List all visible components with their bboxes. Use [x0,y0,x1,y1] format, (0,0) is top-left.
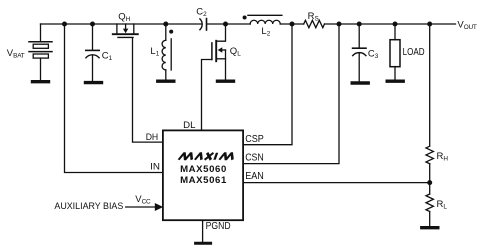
op-amp U1 MAX5060/MAX5061 controller IC box [163,130,243,220]
svg-text:DH: DH [146,132,159,143]
battery VBAT [29,24,52,80]
svg-text:DL: DL [183,120,196,131]
inductor L2 [248,15,282,24]
ground (battery) [33,80,49,83]
svg-text:MAX5061: MAX5061 [180,175,227,186]
wire VCC auxiliary bias arrow [126,203,164,211]
load box [390,24,400,80]
svg-text:AUXILIARY BIAS: AUXILIARY BIAS [54,200,123,211]
wire CSP net to IC [243,24,292,145]
svg-text:PGND: PGND [206,221,231,232]
transistor QH (high-side MOSFET) [113,24,138,37]
resistor RL [426,194,433,212]
wire IN net to IC [65,24,164,173]
wire CSN net to IC [243,24,339,164]
svg-text:MAX5060: MAX5060 [180,164,227,175]
capacitor C1 [86,24,99,81]
wire VOUT rail down to RH [429,24,431,146]
capacitor C2 [200,19,207,30]
ground (RL) [422,226,438,229]
ground (LOAD) [387,79,403,82]
svg-text:EAN: EAN [245,171,264,182]
svg-text:CSP: CSP [245,134,264,145]
svg-text:CSN: CSN [245,152,264,163]
wire rail C2 to L2 [207,23,250,25]
wire input rail VBAT/IN/C1 to QH and on to C2 [41,23,202,25]
transistor QL (low-side MOSFET) [212,24,226,80]
svg-text:LOAD: LOAD [403,47,425,58]
resistor RH [426,146,433,164]
ground (L1) [158,79,174,82]
MAXIM logo [179,153,235,160]
node L1 junction [163,22,168,27]
wire rail RS to VOUT [325,23,456,25]
ground (C1) [86,81,102,84]
resistor RS [304,20,325,27]
wire DL net (QL gate to IC) [202,60,212,130]
node QL junction [223,22,228,27]
node CSP junction [290,22,295,27]
wire RL to ground [429,212,431,227]
ground (C3) [352,81,368,84]
node L1 phase dot [169,30,173,34]
svg-text:IN: IN [150,161,160,172]
node IN junction [62,22,67,27]
inductor L1 [162,24,171,80]
node C1 junction [90,22,95,27]
node CSN junction [337,22,342,27]
wire EAN net IC to divider [243,182,430,184]
node L2 phase dot [243,16,247,20]
ground (QL) [218,79,234,82]
node C3 junction [357,22,362,27]
node LOAD junction [393,22,398,27]
capacitor C3 [353,24,366,82]
ground (PGND) [196,242,211,245]
wire RH to node EAN [429,164,431,194]
node RH junction [427,22,432,27]
node EAN junction [427,180,432,185]
wire PGND to ground [202,220,204,242]
wire DH net (QH gate to IC) [133,38,164,142]
wire rail L2 to RS [280,23,304,25]
